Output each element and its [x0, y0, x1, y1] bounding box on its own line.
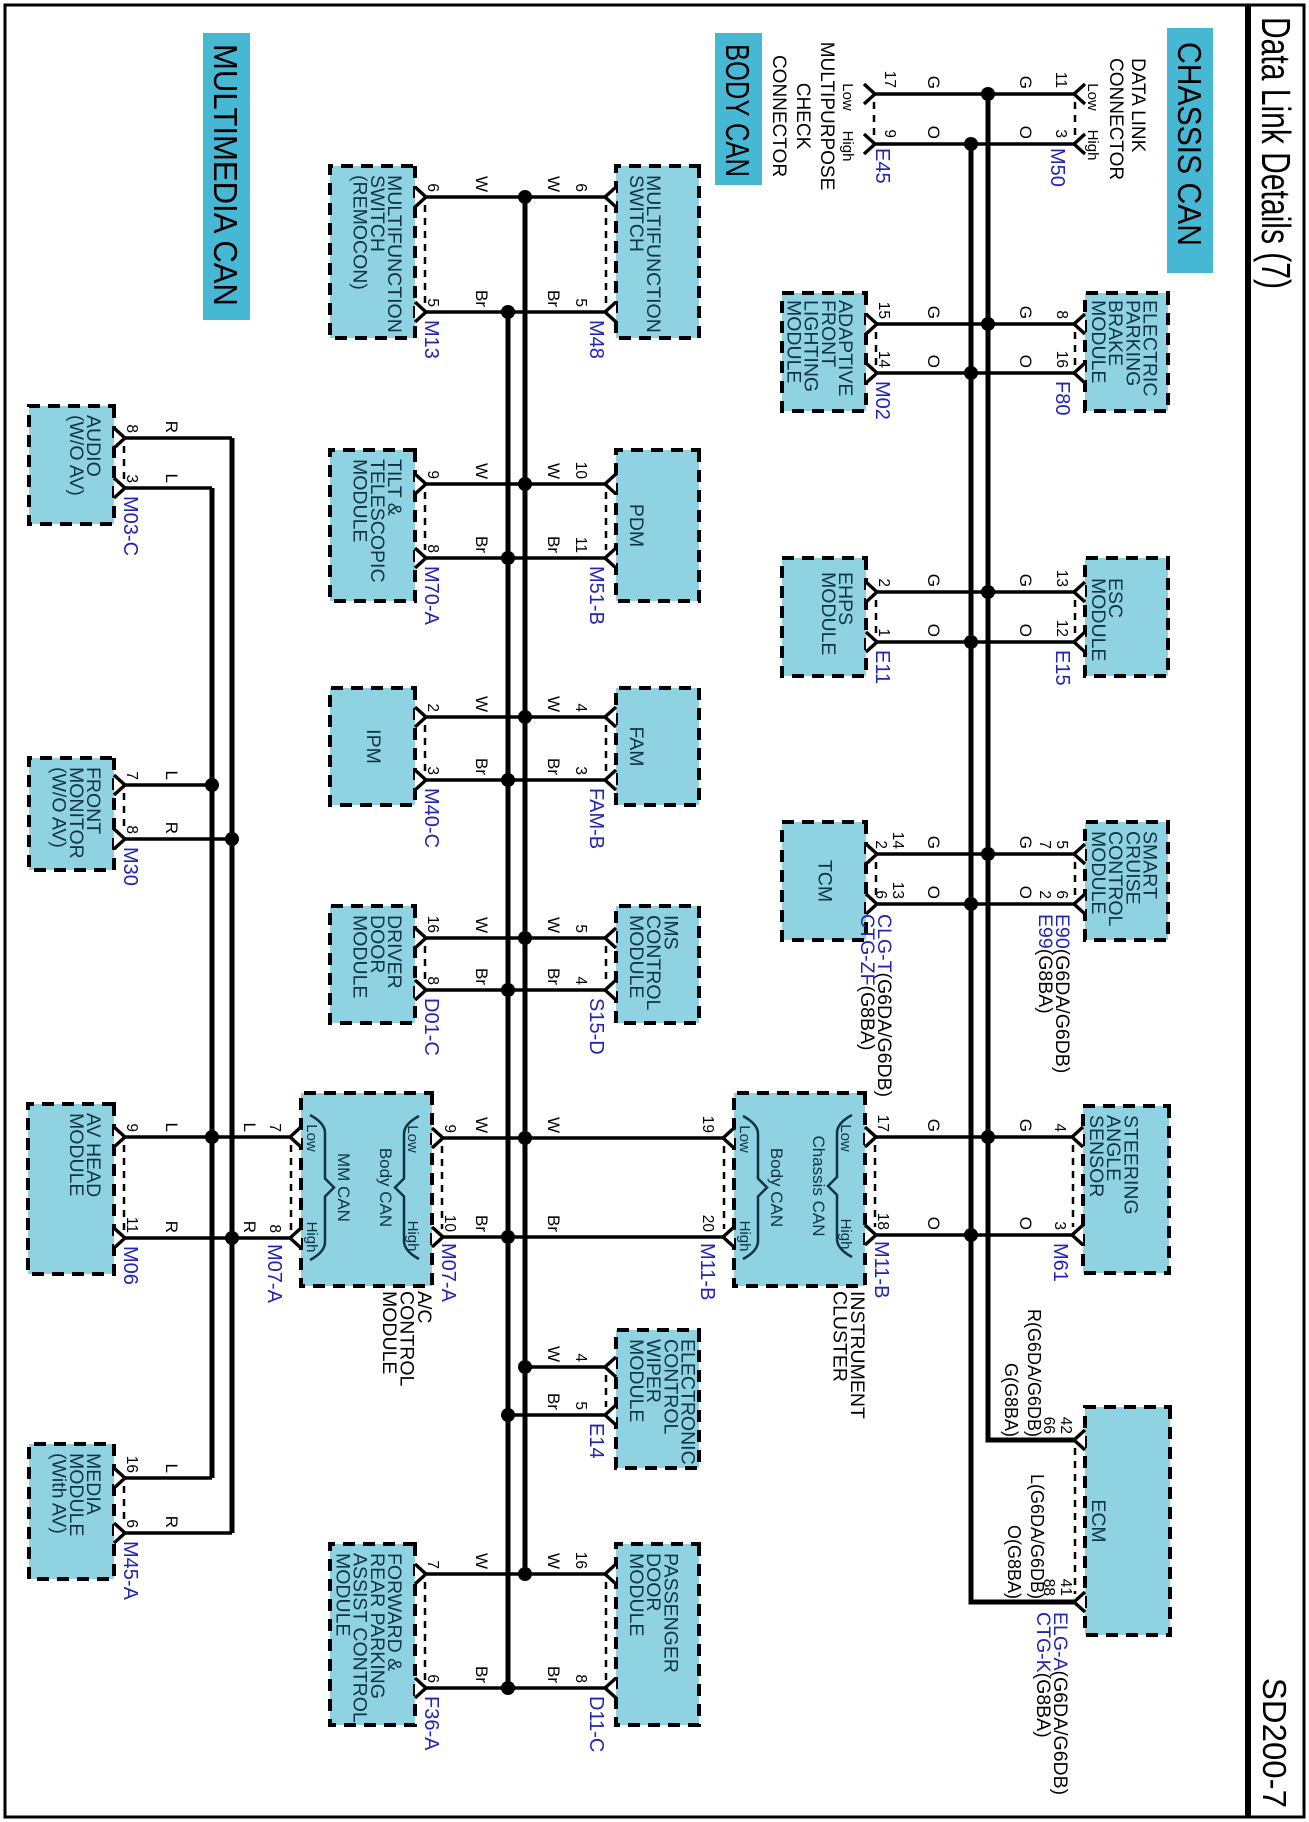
junction dot O x=144 — [964, 137, 978, 151]
wire color labels W Br (above bus) — [544, 1346, 563, 1410]
svg-text:D11-C: D11-C — [585, 1696, 607, 1752]
wire branch MEDIA (R) — [125, 1531, 232, 1535]
junction dot W x=197 — [518, 190, 532, 204]
svg-text:G: G — [924, 76, 943, 89]
module ESC MODULE — [1085, 558, 1168, 676]
wire branch SAS/IC (G) — [876, 1135, 1074, 1139]
wire color labels L R (A/C MM side) — [240, 1123, 259, 1233]
junction dot L x=785 — [205, 778, 219, 792]
svg-text:G: G — [924, 836, 943, 849]
svg-text:O: O — [924, 886, 943, 899]
connector pins of PDM — [572, 462, 616, 568]
svg-text:M02: M02 — [871, 381, 893, 420]
svg-text:9: 9 — [881, 129, 898, 138]
svg-text:6: 6 — [572, 183, 589, 192]
svg-text:L: L — [162, 771, 181, 780]
svg-text:10: 10 — [441, 1215, 458, 1233]
svg-text:O: O — [1016, 624, 1035, 637]
svg-text:E99(G8BA): E99(G8BA) — [1034, 914, 1056, 1014]
svg-text:O: O — [1016, 355, 1035, 368]
svg-text:MODULE: MODULE — [1087, 578, 1109, 661]
connector pins of ADAPTIVE FRONT LIGHTING MODULE — [866, 302, 892, 383]
IC internal brace Chassis CAN — [809, 1115, 854, 1257]
svg-text:8: 8 — [123, 424, 140, 433]
wire color labels G O (IC side) — [924, 1119, 943, 1230]
svg-text:11: 11 — [572, 537, 589, 553]
svg-text:(REMOCON): (REMOCON) — [349, 175, 371, 290]
junction dot W x=717 — [518, 710, 532, 724]
svg-text:MODULE: MODULE — [1087, 831, 1109, 914]
connector label M11-B (chassis side) — [870, 1241, 892, 1298]
svg-text:Low: Low — [404, 1125, 421, 1153]
svg-text:W: W — [544, 917, 563, 933]
svg-text:High: High — [839, 131, 856, 162]
svg-text:Body CAN: Body CAN — [376, 1148, 395, 1227]
svg-text:CONNECTOR: CONNECTOR — [768, 55, 789, 177]
connector label E14 — [585, 1423, 607, 1459]
connector label ELG-A / CTG-K — [1032, 1612, 1071, 1795]
module FAM — [616, 688, 699, 805]
svg-text:5: 5 — [572, 298, 589, 307]
svg-text:9: 9 — [424, 470, 441, 479]
svg-text:W: W — [472, 1553, 491, 1569]
label INSTRUMENT CLUSTER — [829, 1291, 869, 1419]
module MULTIFUNCTION SWITCH — [616, 166, 699, 338]
svg-text:ECM: ECM — [1087, 1499, 1109, 1542]
page code SD200-7 — [1256, 1678, 1293, 1808]
svg-text:MODULE: MODULE — [65, 1113, 87, 1196]
wire branch MULTIFUNCTION SWITCH (Br) — [426, 310, 605, 314]
svg-text:5: 5 — [1053, 840, 1070, 849]
svg-text:12: 12 — [1053, 620, 1070, 637]
connector pins of EHPS MODULE — [866, 578, 892, 652]
svg-text:5: 5 — [424, 298, 441, 307]
svg-text:CHASSIS CAN: CHASSIS CAN — [1171, 42, 1208, 246]
svg-text:SENSOR: SENSOR — [1085, 1115, 1107, 1197]
svg-text:BODY CAN: BODY CAN — [719, 44, 756, 177]
svg-text:O: O — [1016, 126, 1035, 139]
module ELECTRONIC CONTROL WIPER MODULE — [616, 1330, 699, 1468]
wire color labels W Br (below bus) — [472, 1553, 491, 1683]
connector pins of TILT & TELESCOPIC MODULE — [415, 470, 441, 568]
connector pins of SMART CRUISE CONTROL MODULE — [1036, 840, 1085, 914]
A/C internal brace MM CAN — [303, 1115, 353, 1260]
connector pins of TCM — [866, 832, 906, 914]
connector pins of FAM — [572, 703, 616, 790]
svg-text:G: G — [1016, 574, 1035, 587]
connector label M48 — [585, 320, 607, 359]
wire color labels G O (above bus) — [1016, 574, 1035, 637]
svg-text:5: 5 — [572, 1401, 589, 1410]
svg-text:M07-A: M07-A — [437, 1243, 459, 1303]
svg-text:6: 6 — [424, 1674, 441, 1683]
svg-text:L(G6DA/G6DB): L(G6DA/G6DB) — [1027, 1474, 1047, 1599]
svg-text:W: W — [544, 1117, 563, 1133]
svg-text:CONNECTOR: CONNECTOR — [1105, 58, 1126, 180]
svg-text:High: High — [303, 1222, 320, 1253]
wire branch EPB/AFL (G) — [875, 322, 1074, 326]
connector label M61 — [1049, 1243, 1071, 1282]
connector label M45-A — [119, 1541, 141, 1601]
connector label F36-A — [420, 1696, 442, 1751]
section label MULTIMEDIA CAN — [203, 33, 250, 320]
junction dot W x=1367 — [518, 1360, 532, 1374]
connector pins of AV HEAD MODULE — [114, 1123, 140, 1248]
connector label E90 / E99 — [1034, 914, 1073, 1073]
wire branch SCC/TCM (G) — [875, 852, 1074, 856]
connector pins of MULTIFUNCTION SWITCH — [572, 183, 616, 322]
svg-text:Data Link Details (7): Data Link Details (7) — [1253, 17, 1299, 289]
wire color labels W Br (above bus) — [544, 696, 563, 775]
svg-text:3: 3 — [572, 766, 589, 775]
wire color labels W Br (below bus) — [472, 917, 491, 985]
svg-text:13: 13 — [1053, 570, 1070, 587]
wire branch ESC/EHPS (O) — [875, 640, 1074, 644]
module PASSENGER DOOR MODULE — [616, 1544, 699, 1725]
svg-text:PDM: PDM — [625, 504, 647, 547]
svg-text:42: 42 — [1057, 1417, 1074, 1434]
connector pins of MEDIA MODULE (With AV) — [114, 1456, 140, 1543]
connector label M50 — [1046, 148, 1068, 187]
svg-text:20: 20 — [699, 1215, 716, 1233]
junction dot Br x=312 — [501, 305, 515, 319]
wire color labels L R (below bus) — [162, 1464, 181, 1528]
junction dot R x=1238 — [225, 1231, 239, 1245]
svg-text:7: 7 — [266, 1123, 283, 1132]
svg-text:Br: Br — [472, 758, 491, 775]
svg-text:High: High — [1084, 130, 1101, 161]
svg-text:15: 15 — [875, 302, 892, 319]
svg-text:W: W — [544, 176, 563, 192]
svg-text:L: L — [240, 1123, 259, 1132]
wire branch IMS CONTROL MODULE (W) — [426, 936, 605, 940]
svg-text:CTG-ZF(G8BA): CTG-ZF(G8BA) — [856, 914, 878, 1051]
svg-text:MODULE: MODULE — [782, 300, 804, 383]
section label BODY CAN — [715, 33, 762, 185]
svg-text:W: W — [544, 463, 563, 479]
svg-text:Chassis CAN: Chassis CAN — [809, 1135, 828, 1236]
connector label S15-D — [585, 998, 607, 1055]
junction dot O x=371 — [964, 366, 978, 380]
wire branch SAS/IC (O) — [876, 1233, 1074, 1237]
svg-text:IPM: IPM — [362, 729, 384, 764]
svg-text:M48: M48 — [585, 320, 607, 359]
svg-text:Br: Br — [544, 536, 563, 553]
module STEERING ANGLE SENSOR — [1083, 1106, 1169, 1273]
wire branch FRONT MONITOR (R) — [125, 837, 232, 841]
wire color labels W Br (A/C side) — [472, 1117, 491, 1232]
junction dot G x=1137 — [981, 1130, 995, 1144]
IC body CAN pins 19/20 — [699, 1116, 734, 1247]
svg-text:MODULE: MODULE — [349, 459, 371, 542]
connector pins of DRIVER DOOR MODULE — [415, 916, 441, 1000]
junction dot L x=1137 — [205, 1130, 219, 1144]
wire color labels G O (below bus) — [924, 836, 943, 899]
svg-text:R(G6DA/G6DB): R(G6DA/G6DB) — [1024, 1309, 1044, 1437]
svg-text:3: 3 — [1051, 1221, 1068, 1230]
svg-text:W: W — [544, 696, 563, 712]
wire color labels G O (below bus) — [924, 574, 943, 637]
svg-text:FAM: FAM — [625, 726, 647, 766]
svg-text:6: 6 — [1053, 890, 1070, 899]
wire branch PDM (Br) — [426, 556, 605, 560]
svg-text:18: 18 — [874, 1213, 891, 1230]
svg-text:MODULE: MODULE — [625, 915, 647, 998]
svg-text:3: 3 — [123, 474, 140, 483]
svg-text:M61: M61 — [1049, 1243, 1071, 1282]
junction dot O x=904 — [964, 897, 978, 911]
svg-text:MULTIPURPOSE: MULTIPURPOSE — [816, 42, 837, 191]
module PDM — [616, 450, 699, 601]
connector pins of ESC MODULE — [1053, 570, 1085, 652]
svg-text:Br: Br — [544, 758, 563, 775]
wire color labels G O (above bus) — [1016, 836, 1035, 899]
connector label M13 — [420, 320, 442, 359]
svg-text:17: 17 — [874, 1115, 891, 1132]
svg-text:TCM: TCM — [814, 860, 836, 902]
connector label M51-B — [585, 566, 607, 625]
svg-text:6: 6 — [872, 890, 889, 899]
svg-text:13: 13 — [889, 882, 906, 899]
svg-text:G: G — [924, 574, 943, 587]
svg-text:M11-B: M11-B — [696, 1243, 718, 1300]
wire color labels W Br (above bus) — [544, 917, 563, 985]
svg-text:6: 6 — [123, 1519, 140, 1528]
svg-text:Low: Low — [1084, 83, 1101, 111]
svg-text:O: O — [924, 126, 943, 139]
connector label M06 — [119, 1246, 141, 1285]
module ECM — [1085, 1407, 1170, 1635]
connector label M40-C — [420, 788, 442, 848]
svg-text:E14: E14 — [585, 1423, 607, 1459]
svg-text:S15-D: S15-D — [585, 998, 607, 1055]
svg-text:O: O — [924, 624, 943, 637]
svg-text:7: 7 — [123, 771, 140, 780]
junction dot G x=592 — [981, 585, 995, 599]
module FORWARD & REAR PARKING ASSIST CONTROL MODULE — [330, 1544, 415, 1725]
svg-text:G: G — [1016, 306, 1035, 319]
svg-text:4: 4 — [572, 976, 589, 985]
wire branch IC to A/C control module (W) — [442, 1136, 723, 1140]
svg-text:2: 2 — [875, 578, 892, 587]
module ELECTRIC PARKING BRAKE MODULE — [1085, 293, 1168, 411]
svg-text:2: 2 — [424, 703, 441, 712]
svg-text:5: 5 — [572, 924, 589, 933]
wire branch PDM (W) — [426, 482, 605, 486]
connector pins of AUDIO (W/O AV) — [114, 424, 140, 498]
junction dot Br x=990 — [501, 983, 515, 997]
chassis CAN bus wire O (trunk) — [971, 144, 1074, 1602]
wire color labels G O (DLC) — [1016, 76, 1035, 139]
connector pins of ECM — [1040, 1417, 1085, 1612]
svg-text:M06: M06 — [119, 1246, 141, 1285]
module INSTRUMENT CLUSTER — [734, 1093, 865, 1286]
wire branch AV head to A/C (L) — [125, 1135, 290, 1139]
connector label M02 — [871, 381, 893, 420]
svg-text:G(G8BA): G(G8BA) — [1001, 1363, 1021, 1437]
junction dot W x=1138 — [518, 1131, 532, 1145]
svg-text:L: L — [162, 1123, 181, 1132]
svg-text:Br: Br — [472, 1666, 491, 1683]
svg-text:O(G8BA): O(G8BA) — [1004, 1525, 1024, 1599]
wire branch FAM (W) — [426, 715, 605, 719]
module FRONT MONITOR (W/O AV) — [29, 758, 114, 870]
svg-text:M70-A: M70-A — [420, 566, 442, 626]
svg-text:F36-A: F36-A — [420, 1696, 442, 1751]
connector label F80 — [1051, 381, 1073, 415]
multimedia CAN bus wire L (trunk) — [210, 488, 215, 1478]
svg-text:G: G — [1016, 836, 1035, 849]
svg-text:41: 41 — [1057, 1579, 1074, 1596]
junction dot W x=1574 — [518, 1567, 532, 1581]
svg-text:CHECK: CHECK — [792, 83, 813, 150]
svg-text:8: 8 — [424, 976, 441, 985]
svg-text:MM CAN: MM CAN — [334, 1153, 353, 1222]
junction dot O x=642 — [964, 635, 978, 649]
svg-text:R: R — [162, 822, 181, 834]
connector pins of FORWARD & REAR PARKING ASSIST CONTROL MODULE — [415, 1560, 441, 1698]
svg-text:2: 2 — [872, 840, 889, 849]
wire branch AUDIO (R) — [125, 436, 232, 440]
wire color labels W Br (below bus) — [472, 176, 491, 307]
wire color labels W Br (above bus) — [544, 463, 563, 553]
wire color labels W Br (above bus) — [544, 1553, 563, 1683]
svg-text:4: 4 — [572, 703, 589, 712]
svg-text:9: 9 — [441, 1124, 458, 1133]
wire branch FRONT MONITOR (L) — [125, 783, 212, 787]
svg-text:CLUSTER: CLUSTER — [829, 1291, 851, 1382]
connector pins of PASSENGER DOOR MODULE — [572, 1552, 616, 1698]
svg-text:O: O — [1016, 886, 1035, 899]
svg-text:(W/O AV): (W/O AV) — [48, 767, 70, 848]
wire color label L(G6DA/G6DB) O(G8BA) — [1004, 1474, 1047, 1599]
module TILT & TELESCOPIC MODULE — [330, 450, 415, 601]
wire branch ELECTRONIC CONTROL WIPER MODULE (W) — [525, 1365, 605, 1369]
module AV HEAD MODULE — [28, 1104, 114, 1274]
svg-text:10: 10 — [572, 462, 589, 480]
junction dot G x=94 — [981, 87, 995, 101]
connector label M70-A — [420, 566, 442, 626]
wire color labels R L (below bus) — [162, 421, 181, 483]
svg-text:8: 8 — [266, 1224, 283, 1233]
svg-text:8: 8 — [1053, 310, 1070, 319]
svg-text:M13: M13 — [420, 320, 442, 359]
wire branch AV head to A/C (R) — [125, 1236, 290, 1240]
connector label M07-A (body side) — [437, 1243, 459, 1303]
wire branch MULTIFUNCTION SWITCH (W) — [426, 195, 605, 199]
svg-text:MODULE: MODULE — [378, 1291, 400, 1374]
svg-text:14: 14 — [889, 832, 906, 850]
svg-text:Low: Low — [839, 83, 856, 111]
svg-text:3: 3 — [1052, 129, 1069, 138]
svg-text:3: 3 — [424, 766, 441, 775]
svg-text:G: G — [1016, 1119, 1035, 1132]
svg-text:G: G — [924, 306, 943, 319]
svg-text:17: 17 — [881, 71, 898, 88]
svg-text:16: 16 — [424, 916, 441, 933]
wire color label R(G6DA/G6DB) G(G8BA) — [1001, 1309, 1044, 1437]
wire branch ESC/EHPS (G) — [875, 590, 1074, 594]
A/C MM CAN pins 7/8 — [266, 1123, 301, 1248]
svg-text:2: 2 — [1036, 890, 1053, 899]
wire branch EPB/AFL (O) — [875, 371, 1074, 375]
module DRIVER DOOR MODULE — [330, 906, 415, 1023]
svg-text:MULTIMEDIA CAN: MULTIMEDIA CAN — [207, 44, 244, 306]
wire color labels W Br (IC side) — [544, 1117, 563, 1232]
connector pins of FRONT MONITOR (W/O AV) — [114, 771, 140, 849]
svg-text:MODULE: MODULE — [349, 915, 371, 998]
svg-text:DATA LINK: DATA LINK — [1127, 58, 1148, 153]
wire color labels L R (below bus) — [162, 771, 181, 834]
svg-text:MODULE: MODULE — [331, 1553, 353, 1636]
wire branch IMS CONTROL MODULE (Br) — [426, 988, 605, 992]
svg-text:O: O — [1016, 1217, 1035, 1230]
svg-text:M30: M30 — [119, 847, 141, 886]
wire branch AUDIO (L) — [125, 486, 212, 490]
body CAN bus wire Br (trunk) — [506, 312, 511, 1688]
svg-text:11: 11 — [1052, 72, 1069, 88]
IC chassis CAN pins 17/18 — [865, 1115, 891, 1245]
module MEDIA MODULE (With AV) — [29, 1444, 114, 1579]
connector label D11-C — [585, 1696, 607, 1752]
svg-text:O: O — [924, 1217, 943, 1230]
module ADAPTIVE FRONT LIGHTING MODULE — [782, 293, 866, 411]
svg-text:16: 16 — [1053, 351, 1070, 368]
svg-text:O: O — [924, 355, 943, 368]
wire color labels G O (above bus) — [1016, 306, 1035, 368]
svg-text:W: W — [472, 463, 491, 479]
IC internal brace Body CAN — [736, 1116, 786, 1259]
svg-text:G: G — [924, 1119, 943, 1132]
svg-text:8: 8 — [123, 825, 140, 834]
svg-text:L: L — [162, 1464, 181, 1473]
svg-text:W: W — [472, 176, 491, 192]
wire branch (O) — [875, 142, 1074, 146]
connector pins of ELECTRONIC CONTROL WIPER MODULE — [572, 1353, 616, 1425]
svg-text:Br: Br — [544, 290, 563, 307]
title block divider line — [1245, 5, 1251, 1817]
wire color labels G O (MCC) — [924, 76, 943, 139]
wire color labels G O (below bus) — [924, 306, 943, 368]
junction dot Br x=558 — [501, 551, 515, 565]
wire branch ELECTRONIC CONTROL WIPER MODULE (Br) — [508, 1413, 605, 1417]
svg-text:Br: Br — [544, 1215, 563, 1232]
svg-text:7: 7 — [424, 1560, 441, 1569]
svg-text:MODULE: MODULE — [625, 1553, 647, 1636]
svg-text:Br: Br — [544, 1393, 563, 1410]
connector MULTIPURPOSE CHECK CONNECTOR — [768, 42, 898, 191]
connector label M07-A (MM side) — [263, 1244, 285, 1304]
module EHPS MODULE — [782, 558, 866, 676]
wire color labels G O (above bus) — [1016, 1119, 1035, 1230]
svg-text:8: 8 — [424, 544, 441, 553]
svg-text:Br: Br — [472, 968, 491, 985]
A/C body CAN pins 9/10 — [432, 1124, 458, 1247]
wire color labels W Br (below bus) — [472, 696, 491, 775]
svg-text:Low: Low — [303, 1124, 320, 1152]
wire branch SCC/TCM (O) — [875, 902, 1074, 906]
svg-text:CTG-K(G8BA): CTG-K(G8BA) — [1032, 1612, 1054, 1738]
junction dot Br x=1237 — [501, 1230, 515, 1244]
svg-text:M40-C: M40-C — [420, 788, 442, 848]
svg-text:E45: E45 — [871, 148, 893, 184]
svg-text:MODULE: MODULE — [817, 572, 839, 655]
wire branch MEDIA (L) — [125, 1476, 212, 1480]
connector label E45 — [871, 148, 893, 184]
svg-text:6: 6 — [424, 183, 441, 192]
junction dot R x=839 — [225, 832, 239, 846]
svg-text:16: 16 — [572, 1552, 589, 1569]
